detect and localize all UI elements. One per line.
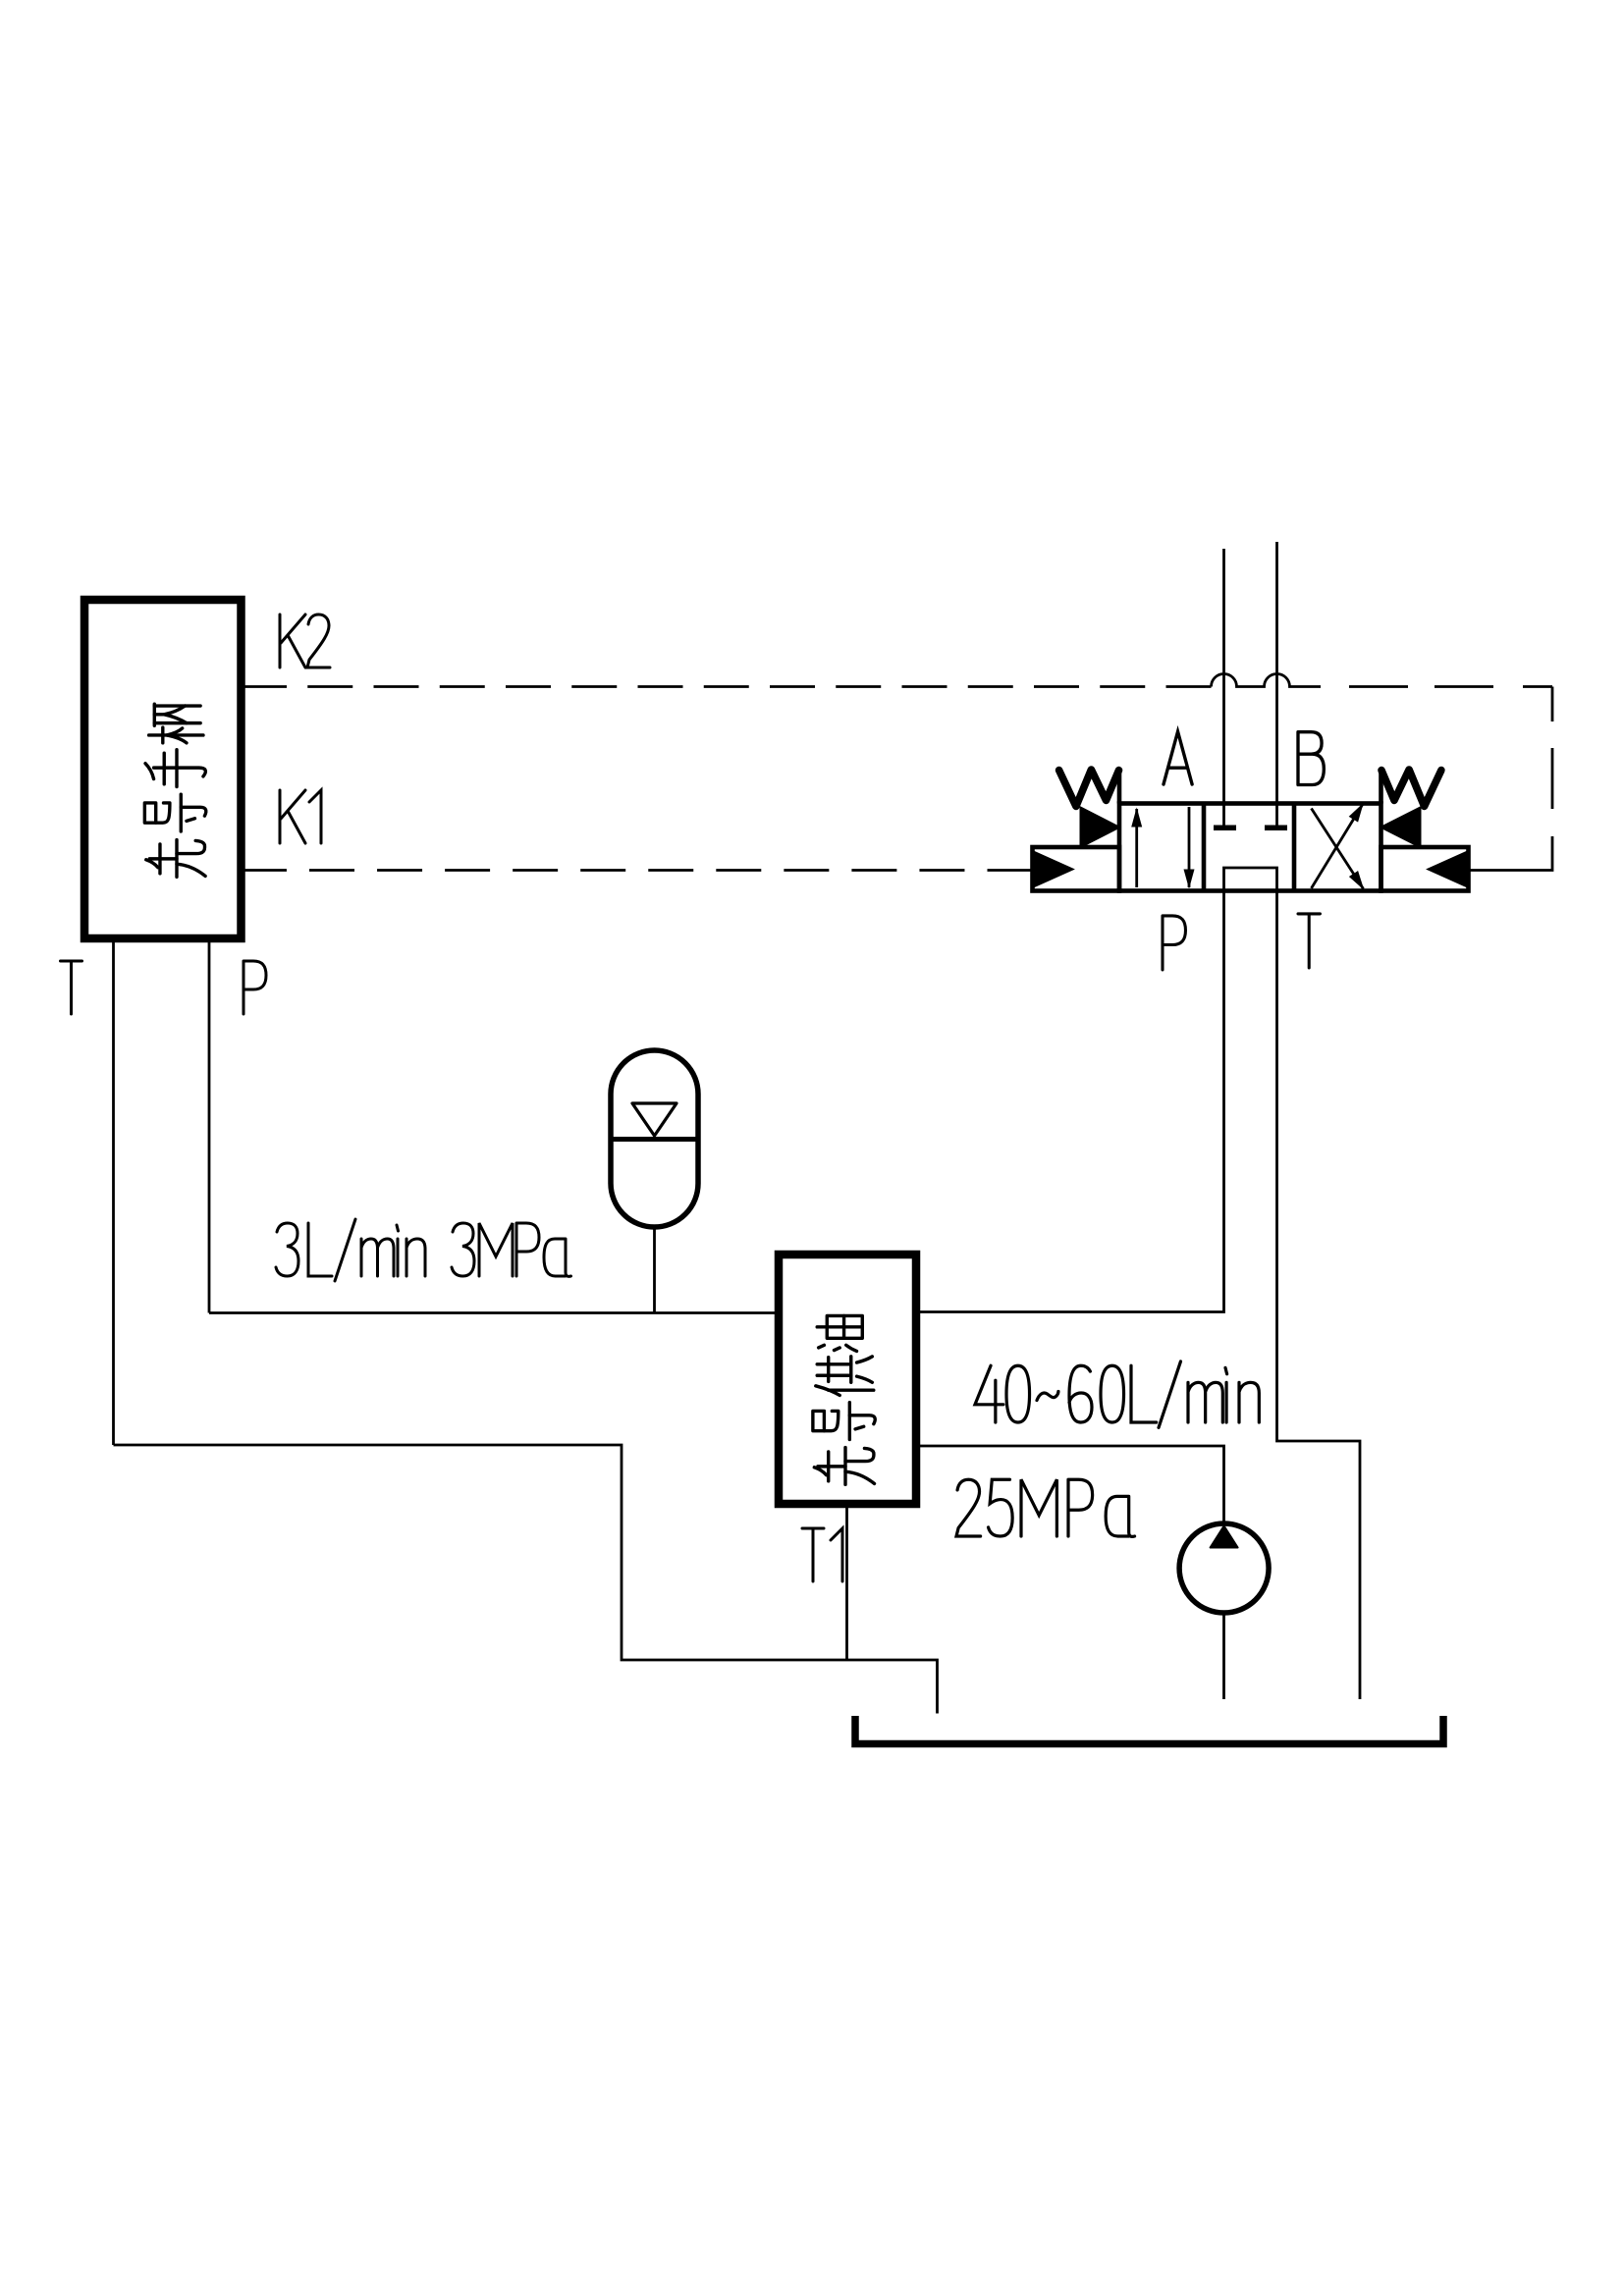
pilot oil supply block (先导供油) xyxy=(779,1255,916,1504)
K2 dashed vertical to right actuator xyxy=(1469,687,1553,871)
accumulator gas triangle xyxy=(632,1103,677,1136)
label T1 xyxy=(802,1528,842,1581)
pilot actuator triangle upper-right xyxy=(1381,808,1421,848)
right cell crossed arrow 2 xyxy=(1312,809,1364,889)
pilot box lower-left triangle xyxy=(1034,852,1073,887)
label 先导供油 (rotated) xyxy=(817,1315,862,1351)
spring right xyxy=(1381,770,1441,806)
T1 drop line xyxy=(845,1504,848,1660)
accumulator shell xyxy=(611,1050,698,1227)
label T (valve port) xyxy=(1298,914,1320,968)
label T (handle tank port) xyxy=(61,961,82,1014)
accumulator drop line xyxy=(653,1227,656,1313)
label B (valve port) xyxy=(1298,732,1324,785)
label P (valve port) xyxy=(1163,916,1185,970)
tank (reservoir) xyxy=(855,1716,1443,1744)
pilot box lower-left xyxy=(1033,847,1120,891)
label 40~60L/min xyxy=(975,1362,1259,1427)
label 25MPa xyxy=(956,1479,1135,1536)
valve cell dividers xyxy=(1204,804,1294,891)
pilot line K1 (dashed) xyxy=(242,869,1033,872)
pilot line K2 (dashed) xyxy=(242,685,1212,688)
label K1 xyxy=(280,790,321,843)
pump suction line xyxy=(1222,1613,1225,1699)
spring left xyxy=(1059,770,1119,806)
valve T return line xyxy=(1277,891,1361,1700)
label P (handle pressure port) xyxy=(244,961,266,1014)
T return path steps xyxy=(114,1445,938,1714)
label 先导手柄 (rotated) xyxy=(149,704,203,743)
center cell P-T bypass bracket xyxy=(1224,868,1277,891)
pilot supply line to 先导供油 box xyxy=(209,1311,779,1314)
center cell blocked ports A,B (T-bars) xyxy=(1214,825,1287,830)
pilot handle block (先导手柄) xyxy=(84,600,242,938)
pilot actuator triangle upper-left xyxy=(1081,808,1120,848)
label A (valve port) xyxy=(1164,731,1192,784)
accumulator divider xyxy=(611,1137,698,1142)
pilot box lower-right xyxy=(1381,847,1469,891)
pilot supply output to valve P xyxy=(916,891,1224,1312)
pump flow triangle xyxy=(1211,1526,1238,1548)
handle T drop line xyxy=(112,938,115,1445)
pilot box lower-right triangle xyxy=(1429,852,1468,887)
left cell down arrow (B to T) xyxy=(1188,807,1191,887)
work line B (vertical) xyxy=(1275,542,1278,826)
right cell crossed arrow 1 xyxy=(1312,804,1364,888)
work line A (vertical) xyxy=(1222,549,1225,826)
body edge extensions (spring seats) xyxy=(1119,770,1381,804)
4/3 directional valve body xyxy=(1119,804,1381,891)
handle P drop line xyxy=(208,938,211,1313)
label K2 xyxy=(280,614,330,667)
pump circle xyxy=(1179,1523,1269,1613)
main pump line to supply box xyxy=(916,1446,1224,1523)
label 3L/min 3MPa xyxy=(276,1219,571,1281)
K2 line hops over A,B lines xyxy=(1212,674,1322,687)
left cell up arrow (P to A) xyxy=(1135,809,1138,887)
